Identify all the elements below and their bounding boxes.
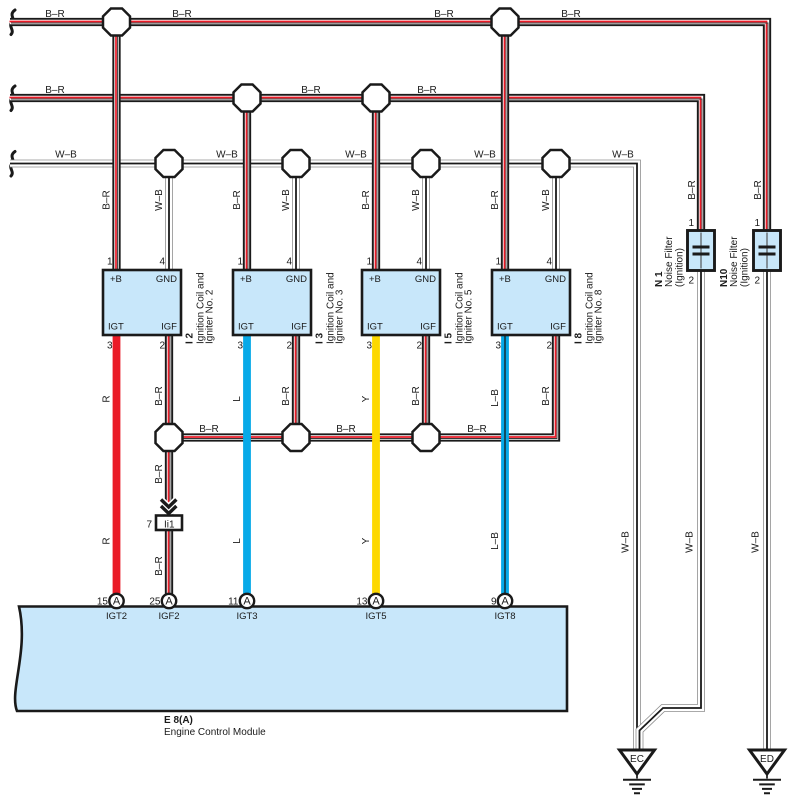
- wire +B drop to I8: [505, 22, 507, 272]
- svg-text:IGF: IGF: [420, 322, 436, 333]
- junction node rail1 / I2 +B: [103, 9, 130, 36]
- svg-text:B–R: B–R: [232, 190, 243, 209]
- svg-text:B–R: B–R: [301, 85, 320, 96]
- svg-text:+B: +B: [110, 274, 122, 285]
- svg-text:A: A: [165, 596, 173, 608]
- svg-text:W–B: W–B: [474, 150, 496, 161]
- noise filter N1 (ignition): [688, 231, 715, 271]
- svg-text:IGT2: IGT2: [106, 611, 127, 622]
- svg-text:2: 2: [286, 341, 292, 352]
- svg-text:W–B: W–B: [55, 150, 77, 161]
- junction node rail1 / I8 +B: [492, 9, 519, 36]
- svg-text:A: A: [113, 596, 121, 608]
- ECM pin 11 connector A circle (IGT3): [240, 594, 254, 608]
- svg-text:Engine Control Module: Engine Control Module: [164, 727, 266, 738]
- svg-text:B–R: B–R: [434, 9, 453, 20]
- svg-text:B–R: B–R: [467, 424, 486, 435]
- wire B–R power rail 2 to noise filter N1: [10, 98, 703, 235]
- svg-text:B–R: B–R: [417, 85, 436, 96]
- junction node ground rail / igniter 1 GND: [156, 150, 183, 177]
- wire break symbol rail 1 left end: [11, 10, 15, 35]
- junction node ground rail / igniter 2 GND: [283, 150, 310, 177]
- svg-text:+B: +B: [240, 274, 252, 285]
- wire +B drop to I2: [116, 22, 118, 272]
- svg-text:B–R: B–R: [281, 386, 292, 405]
- svg-text:B–R: B–R: [154, 556, 165, 575]
- wire B–R IGF bus: [169, 335, 558, 439]
- ground ED: [750, 750, 785, 793]
- svg-text:1: 1: [495, 257, 501, 268]
- wire W–B ground rail to ground EC: [10, 164, 637, 753]
- svg-text:B–R: B–R: [154, 464, 165, 483]
- wire B–R IGF2 line to ECM: [169, 437, 171, 602]
- svg-text:R: R: [102, 395, 113, 402]
- wire break symbol rail 2 left end: [11, 86, 15, 111]
- wire +B drop to I5: [376, 98, 378, 272]
- svg-text:Y: Y: [361, 395, 372, 402]
- wire IGF drop from I3: [296, 335, 298, 439]
- svg-text:L: L: [232, 538, 243, 544]
- ECM pin 9 connector A circle (IGT8): [498, 594, 512, 608]
- ECM pin 15 connector A circle (IGT2): [109, 594, 123, 608]
- svg-text:9: 9: [491, 597, 497, 608]
- wire L–B IGT8 line: [501, 335, 509, 601]
- igniter I8 ignition coil and igniter no.8: [492, 270, 570, 335]
- svg-text:2: 2: [688, 276, 694, 287]
- wire IGF drop from I2: [169, 335, 171, 439]
- svg-text:3: 3: [495, 341, 501, 352]
- svg-text:1: 1: [237, 257, 243, 268]
- svg-text:B–R: B–R: [45, 9, 64, 20]
- svg-text:GND: GND: [156, 274, 177, 285]
- wire W–B GND drop to igniter 3: [422, 164, 430, 271]
- junction node IGF bus / I3: [283, 424, 310, 451]
- svg-text:2: 2: [754, 276, 760, 287]
- svg-text:Noise Filter: Noise Filter: [729, 236, 740, 287]
- svg-text:B–R: B–R: [102, 190, 113, 209]
- svg-text:E 8(A): E 8(A): [164, 715, 193, 726]
- svg-text:W–B: W–B: [281, 189, 292, 211]
- svg-text:I 2: I 2: [185, 332, 196, 344]
- svg-text:+B: +B: [369, 274, 381, 285]
- svg-text:Igniter No. 8: Igniter No. 8: [594, 289, 605, 344]
- svg-text:B–R: B–R: [541, 386, 552, 405]
- svg-text:W–B: W–B: [411, 189, 422, 211]
- svg-text:W–B: W–B: [751, 531, 762, 553]
- junction node rail2 / I5 +B: [363, 85, 390, 112]
- svg-text:B–R: B–R: [172, 9, 191, 20]
- svg-text:W–B: W–B: [621, 531, 632, 553]
- svg-text:IGT: IGT: [497, 322, 513, 333]
- svg-text:3: 3: [366, 341, 372, 352]
- svg-text:1: 1: [754, 218, 760, 229]
- svg-text:Igniter No. 5: Igniter No. 5: [464, 289, 475, 344]
- svg-text:3: 3: [107, 341, 113, 352]
- junction node IGF bus / I2: [156, 424, 183, 451]
- svg-text:B–R: B–R: [753, 180, 764, 199]
- igniter I3 ignition coil and igniter no.3: [233, 270, 311, 335]
- svg-text:15: 15: [97, 597, 109, 608]
- junction node IGF bus / I5: [413, 424, 440, 451]
- svg-text:B–R: B–R: [561, 9, 580, 20]
- igniter I5 ignition coil and igniter no.5: [362, 270, 440, 335]
- svg-text:B–R: B–R: [199, 424, 218, 435]
- svg-text:2: 2: [546, 341, 552, 352]
- svg-text:IGT: IGT: [108, 322, 124, 333]
- svg-text:Ii1: Ii1: [164, 520, 175, 531]
- svg-text:B–R: B–R: [154, 386, 165, 405]
- svg-text:I 3: I 3: [315, 332, 326, 344]
- wire Y IGT5 line: [372, 335, 380, 601]
- svg-text:+B: +B: [499, 274, 511, 285]
- wire +B drop to I3: [247, 98, 249, 272]
- svg-text:A: A: [372, 596, 380, 608]
- svg-text:1: 1: [366, 257, 372, 268]
- junction node rail2 / I3 +B: [234, 85, 261, 112]
- svg-text:B–R: B–R: [336, 424, 355, 435]
- ECM pin 25 connector A circle (IGF2): [162, 594, 176, 608]
- svg-text:25: 25: [149, 597, 161, 608]
- svg-text:1: 1: [107, 257, 113, 268]
- svg-text:Y: Y: [361, 537, 372, 544]
- svg-text:B–R: B–R: [687, 180, 698, 199]
- svg-text:1: 1: [688, 218, 694, 229]
- svg-text:GND: GND: [415, 274, 436, 285]
- svg-text:IGT8: IGT8: [494, 611, 515, 622]
- wire IGF drop from I5: [426, 335, 428, 439]
- svg-text:IGT: IGT: [238, 322, 254, 333]
- svg-text:ED: ED: [760, 754, 774, 765]
- svg-text:Igniter No. 2: Igniter No. 2: [205, 289, 216, 344]
- svg-text:11: 11: [228, 597, 239, 608]
- svg-text:I 8: I 8: [574, 332, 585, 344]
- svg-text:Noise Filter: Noise Filter: [664, 236, 675, 287]
- svg-text:B–R: B–R: [45, 85, 64, 96]
- svg-text:L–B: L–B: [490, 532, 501, 550]
- svg-text:W–B: W–B: [154, 189, 165, 211]
- svg-text:B–R: B–R: [411, 386, 422, 405]
- svg-text:L–B: L–B: [490, 389, 501, 407]
- svg-text:IGF: IGF: [291, 322, 307, 333]
- svg-text:7: 7: [146, 520, 152, 531]
- ECM pin 13 connector A circle (IGT5): [369, 594, 383, 608]
- svg-text:Igniter No. 3: Igniter No. 3: [335, 289, 346, 344]
- wire break symbol rail 3 left end: [11, 152, 15, 177]
- svg-text:13: 13: [356, 597, 368, 608]
- svg-text:W–B: W–B: [612, 150, 634, 161]
- svg-text:2: 2: [159, 341, 165, 352]
- wire W–B GND drop to igniter 1: [165, 164, 173, 271]
- wire B–R power rail 1 to noise filter N10: [10, 22, 769, 235]
- svg-text:2: 2: [416, 341, 422, 352]
- wire W–B GND drop to igniter 4: [552, 164, 560, 271]
- svg-text:L: L: [232, 396, 243, 402]
- svg-text:IGF: IGF: [161, 322, 177, 333]
- svg-text:A: A: [501, 596, 509, 608]
- svg-text:IGF: IGF: [550, 322, 566, 333]
- svg-text:W–B: W–B: [345, 150, 367, 161]
- svg-text:IGT: IGT: [367, 322, 383, 333]
- ECM E 8(A) engine control module box: [15, 607, 567, 712]
- svg-text:B–R: B–R: [490, 190, 501, 209]
- svg-text:4: 4: [416, 257, 422, 268]
- svg-text:R: R: [102, 537, 113, 544]
- wire W–B from N10 to ground ED: [763, 268, 771, 753]
- junction node ground rail / igniter 4 GND: [543, 150, 570, 177]
- svg-text:W–B: W–B: [685, 531, 696, 553]
- ground EC: [620, 750, 655, 793]
- svg-text:B–R: B–R: [361, 190, 372, 209]
- svg-text:(Ignition): (Ignition): [740, 248, 751, 287]
- wire L IGT3 line: [243, 335, 251, 601]
- svg-text:3: 3: [237, 341, 243, 352]
- svg-text:EC: EC: [630, 754, 644, 765]
- svg-text:W–B: W–B: [541, 189, 552, 211]
- svg-text:W–B: W–B: [216, 150, 238, 161]
- svg-text:IGF2: IGF2: [158, 611, 179, 622]
- svg-text:IGT5: IGT5: [365, 611, 386, 622]
- wire R IGT2 line: [113, 335, 121, 601]
- wire W–B GND drop to igniter 2: [292, 164, 300, 271]
- junction node ground rail / igniter 3 GND: [413, 150, 440, 177]
- svg-text:4: 4: [286, 257, 292, 268]
- svg-text:A: A: [243, 596, 251, 608]
- igniter I2 ignition coil and igniter no.2: [103, 270, 181, 335]
- svg-text:GND: GND: [545, 274, 566, 285]
- svg-text:4: 4: [159, 257, 165, 268]
- svg-text:I 5: I 5: [444, 332, 455, 344]
- svg-text:IGT3: IGT3: [236, 611, 257, 622]
- svg-text:GND: GND: [286, 274, 307, 285]
- connector arrow into junction Ii1: [161, 500, 176, 514]
- svg-text:(Ignition): (Ignition): [675, 248, 686, 287]
- wire W–B from N1 to ground EC: [640, 268, 702, 753]
- junction connector Ii1: [156, 516, 182, 531]
- noise filter N10 (ignition): [754, 231, 781, 271]
- svg-text:4: 4: [546, 257, 552, 268]
